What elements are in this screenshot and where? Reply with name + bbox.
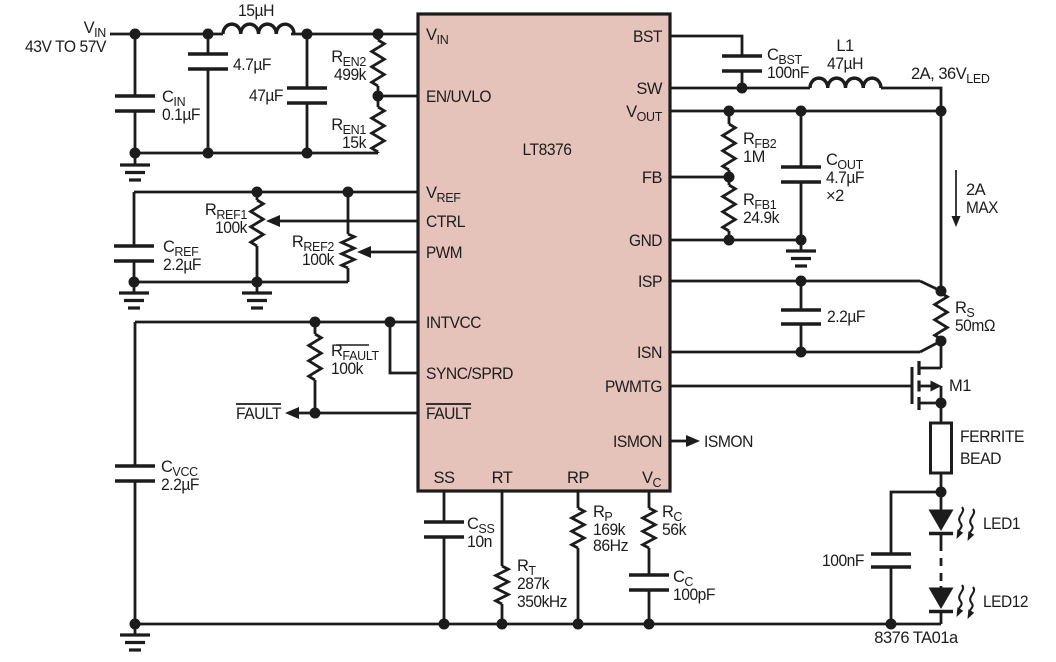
wire ISP: [670, 281, 941, 291]
capacitor 47uF input: [287, 34, 327, 153]
node SYNC link junction: [385, 317, 396, 328]
node CC bottom junction: [644, 619, 655, 630]
capacitor 100nF output: [871, 554, 911, 624]
pin ISN: [637, 344, 662, 362]
wire INTVCC: [135, 321, 418, 324]
wire VREF: [134, 191, 418, 194]
capacitor CREF: [114, 192, 154, 282]
svg-text:BST: BST: [633, 28, 662, 46]
svg-text:PWMTG: PWMTG: [605, 378, 662, 396]
capacitor CBST: [722, 56, 762, 88]
svg-text:15µH: 15µH: [238, 2, 274, 20]
label REN1 15k: [331, 116, 367, 152]
node RS top junction: [936, 286, 947, 297]
inductor L1: [810, 78, 881, 88]
svg-text:50mΩ: 50mΩ: [955, 317, 995, 335]
node RREF2 top junction: [343, 187, 354, 198]
svg-text:ISN: ISN: [637, 344, 662, 362]
ground RREF1: [242, 282, 272, 308]
node COUT bottom junction: [796, 235, 807, 246]
node SW/CBST junction: [737, 83, 748, 94]
svg-text:47µH: 47µH: [827, 55, 863, 73]
node REN2 top junction: [373, 29, 384, 40]
wire VOUT: [670, 110, 941, 113]
svg-text:499k: 499k: [334, 66, 367, 84]
svg-text:FAULT: FAULT: [426, 405, 471, 423]
pin GND: [629, 232, 663, 250]
pin SS: [433, 469, 455, 487]
svg-text:0.1µF: 0.1µF: [162, 106, 200, 124]
pin PWMTG: [605, 378, 662, 396]
label M1: [949, 377, 971, 395]
LED12 light arrows: [957, 585, 975, 619]
label COUT 4.7uF x2: [826, 151, 864, 205]
wire VOUT vertical: [940, 111, 943, 291]
svg-text:86Hz: 86Hz: [593, 537, 628, 555]
label FAULT out: [236, 404, 281, 423]
pin ISP: [638, 273, 662, 291]
ground bottom rail: [120, 624, 150, 650]
wire VREF ground rail: [134, 281, 348, 284]
node M1 source junction: [936, 398, 947, 409]
svg-text:4.7µF: 4.7µF: [826, 169, 864, 187]
svg-text:EN/UVLO: EN/UVLO: [426, 88, 492, 106]
wire VIN input rail: [110, 33, 418, 36]
svg-text:10n: 10n: [467, 533, 492, 551]
pin EN/UVLO: [426, 88, 492, 106]
svg-text:350kHz: 350kHz: [517, 593, 567, 611]
pin RP: [567, 469, 589, 487]
resistor RC: [643, 491, 656, 575]
node RREF1 bottom junction: [252, 277, 263, 288]
svg-text:15k: 15k: [342, 134, 367, 152]
pin RT: [492, 469, 513, 487]
svg-text:100k: 100k: [215, 219, 248, 237]
label 100nF: [822, 552, 864, 570]
pin VC: [642, 469, 662, 490]
svg-text:×2: ×2: [826, 187, 844, 205]
label CVCC 2.2uF: [161, 458, 199, 494]
wire SW: [670, 87, 810, 90]
svg-text:INTVCC: INTVCC: [426, 314, 482, 332]
label RP 169k 86Hz: [593, 503, 628, 555]
svg-text:FERRITE: FERRITE: [960, 428, 1024, 446]
pin VIN: [426, 26, 449, 47]
label 8376 TA01a: [874, 629, 959, 647]
wire bottom ground rail: [135, 623, 941, 626]
svg-text:SW: SW: [636, 80, 663, 98]
label CREF 2.2uF: [163, 238, 201, 274]
resistor RFB2: [723, 111, 736, 177]
capacitor 2.2uF sense: [781, 281, 821, 352]
node CREF bottom junction: [129, 277, 140, 288]
svg-text:RP: RP: [567, 469, 589, 487]
wire SW to VOUT corner: [881, 88, 941, 111]
pin PWM: [426, 244, 462, 262]
wire ISMON arrow: [670, 435, 700, 447]
resistor RT: [496, 491, 509, 624]
label 2A 36VLED: [911, 65, 990, 86]
svg-text:100pF: 100pF: [673, 586, 715, 604]
pin FB: [642, 169, 663, 187]
wire SYNC/SPRD link: [390, 322, 418, 373]
pin SYNC/SPRD: [426, 365, 514, 383]
node 47uF bottom junction: [302, 148, 313, 159]
svg-text:BEAD: BEAD: [960, 450, 1002, 468]
node RFB2 top junction: [724, 106, 735, 117]
svg-text:L1: L1: [836, 37, 854, 55]
svg-text:RT: RT: [492, 469, 513, 487]
wire FAULT out: [285, 407, 418, 419]
resistor REN2: [372, 34, 385, 96]
capacitor CC: [629, 575, 669, 624]
svg-text:2.2µF: 2.2µF: [827, 308, 865, 326]
node COUT top junction: [796, 106, 807, 117]
svg-text:100nF: 100nF: [767, 64, 809, 82]
svg-text:100k: 100k: [331, 360, 364, 378]
IC U1 LT8376 body: [418, 14, 670, 491]
pin VOUT: [626, 103, 663, 124]
label 15uH: [238, 2, 274, 20]
LED LED1: [929, 492, 954, 543]
node VOUT right junction: [936, 106, 947, 117]
wire FB: [670, 176, 729, 179]
ground CREF: [119, 282, 149, 308]
ground input rail: [120, 153, 150, 180]
node EN junction: [373, 91, 384, 102]
label REN2 499k: [331, 48, 367, 84]
svg-text:4.7µF: 4.7µF: [233, 56, 271, 74]
label RT 287k 350kHz: [517, 557, 567, 611]
node RFB1 bottom junction: [724, 235, 735, 246]
pin ISMON: [613, 433, 662, 451]
pin VREF: [426, 184, 461, 205]
node 4.7uF bottom junction: [203, 148, 214, 159]
node ISN junction: [796, 347, 807, 358]
svg-text:56k: 56k: [662, 521, 687, 539]
label RREF2 100k: [292, 233, 335, 269]
svg-text:47µF: 47µF: [249, 87, 283, 105]
svg-text:2A: 2A: [966, 181, 986, 199]
svg-text:ISP: ISP: [638, 273, 662, 291]
label 47uF: [249, 87, 283, 105]
node LED/100nF junction: [936, 487, 947, 498]
label 2.2uF sense: [827, 308, 865, 326]
svg-text:CTRL: CTRL: [426, 213, 465, 231]
wire PWM wiper arrow: [357, 246, 418, 258]
svg-text:LT8376: LT8376: [523, 141, 572, 159]
label VIN source: [25, 19, 106, 56]
resistor RFAULT: [309, 322, 322, 413]
wire EN/UVLO: [378, 95, 418, 98]
node CIN bottom junction: [130, 148, 141, 159]
potentiometer RREF1: [251, 192, 264, 282]
svg-text:LED12: LED12: [983, 593, 1028, 611]
annotation 2A MAX arrow: [952, 170, 961, 227]
transistor M1 NMOS: [912, 341, 942, 423]
node RS bottom junction: [936, 336, 947, 347]
label L1 47uH: [827, 37, 863, 73]
wire LED string dashed: [940, 543, 943, 586]
label RFB1 24.9k: [743, 191, 780, 227]
resistor RFB1: [723, 177, 736, 240]
node ISP junction: [796, 276, 807, 287]
svg-text:2.2µF: 2.2µF: [163, 256, 201, 274]
wire GND: [670, 239, 801, 242]
resistor RP: [572, 491, 585, 624]
svg-text:FB: FB: [642, 169, 663, 187]
svg-text:M1: M1: [949, 377, 971, 395]
inductor 15uH input: [223, 24, 294, 34]
label CIN 0.1uF: [162, 88, 200, 124]
svg-text:ISMON: ISMON: [704, 433, 753, 451]
wire bead to LED node: [940, 473, 943, 492]
resistor REN1: [372, 96, 385, 153]
pin FAULT: [426, 404, 471, 423]
pin CTRL: [426, 213, 465, 231]
svg-text:SS: SS: [433, 469, 455, 487]
svg-text:100nF: 100nF: [822, 552, 864, 570]
label CC 100pF: [673, 568, 715, 604]
node RREF1 top junction: [252, 187, 263, 198]
wire CVCC vertical: [134, 322, 137, 466]
capacitor COUT: [781, 111, 821, 240]
node 100nF bottom junction: [886, 619, 897, 630]
svg-text:LED1: LED1: [983, 515, 1020, 533]
label LED12: [983, 593, 1028, 611]
svg-text:MAX: MAX: [966, 199, 998, 217]
node RT bottom junction: [497, 619, 508, 630]
node RP bottom junction: [573, 619, 584, 630]
svg-text:1M: 1M: [743, 148, 765, 166]
label CBST 100nF: [767, 46, 809, 82]
resistor RS: [935, 293, 948, 341]
pin INTVCC: [426, 314, 482, 332]
wire input ground rail: [135, 152, 378, 155]
wire BST: [670, 36, 742, 56]
node VIN/CIN junction: [130, 29, 141, 40]
potentiometer RREF2: [342, 192, 355, 282]
capacitor 4.7uF input: [188, 34, 228, 153]
node CVCC bottom junction: [130, 619, 141, 630]
svg-text:2.2µF: 2.2µF: [161, 476, 199, 494]
wire PWMTG: [670, 385, 912, 388]
svg-text:100k: 100k: [302, 251, 335, 269]
pin SW: [636, 80, 663, 98]
label FERRITE BEAD: [960, 428, 1024, 468]
node CSS bottom junction: [439, 619, 450, 630]
svg-text:287k: 287k: [517, 575, 550, 593]
label RFB2 1M: [743, 130, 777, 166]
node RFAULT top junction: [310, 317, 321, 328]
wire ISN: [670, 341, 941, 352]
label 2A MAX: [966, 181, 998, 217]
LED LED12: [929, 586, 954, 624]
svg-text:PWM: PWM: [426, 244, 462, 262]
ground GND pin: [786, 240, 816, 266]
node FB junction: [724, 172, 735, 183]
svg-text:43V TO 57V: 43V TO 57V: [25, 38, 106, 56]
capacitor CSS: [424, 491, 464, 624]
label RC 56k: [662, 503, 687, 539]
node 4.7uF top junction: [203, 29, 214, 40]
label RFAULT 100k: [331, 342, 380, 378]
svg-text:GND: GND: [629, 232, 663, 250]
pin BST: [633, 28, 662, 46]
LED1 light arrows: [957, 507, 975, 541]
node 47uF top junction: [302, 29, 313, 40]
label ISMON out: [704, 433, 753, 451]
capacitor CVCC: [115, 466, 155, 624]
label LT8376: [523, 141, 572, 159]
svg-text:ISMON: ISMON: [613, 433, 662, 451]
ferrite bead: [931, 423, 952, 473]
wire CTRL wiper arrow: [266, 215, 418, 227]
label CSS 10n: [467, 515, 495, 551]
wire 100nF branch: [891, 492, 941, 554]
svg-text:FAULT: FAULT: [236, 405, 281, 423]
label LED1: [983, 515, 1020, 533]
label RREF1 100k: [205, 201, 248, 237]
label 4.7uF: [233, 56, 271, 74]
capacitor CIN: [115, 34, 155, 153]
svg-text:SYNC/SPRD: SYNC/SPRD: [426, 365, 514, 383]
node FAULT junction: [310, 408, 321, 419]
svg-text:8376 TA01a: 8376 TA01a: [874, 629, 959, 647]
label RS 50mohm: [955, 299, 995, 335]
svg-text:24.9k: 24.9k: [743, 209, 780, 227]
